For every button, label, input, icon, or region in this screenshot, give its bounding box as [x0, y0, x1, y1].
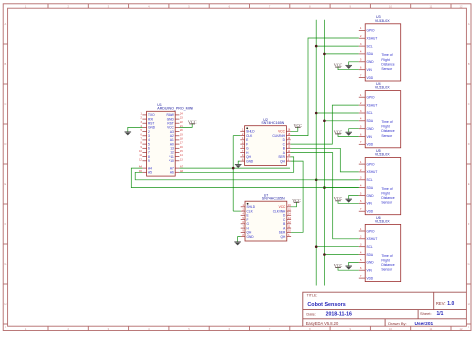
VCC flag U7	[292, 198, 301, 203]
svg-text:SDA: SDA	[367, 186, 374, 190]
svg-text:Time of: Time of	[381, 254, 392, 258]
wire U7.GND	[238, 237, 241, 242]
svg-text:VL53L0X: VL53L0X	[375, 19, 390, 23]
svg-text:1/1: 1/1	[437, 311, 444, 317]
svg-text:A5: A5	[148, 171, 152, 175]
svg-text:User201: User201	[415, 321, 434, 327]
svg-text:Sensor: Sensor	[381, 134, 393, 138]
VCC flag U1	[188, 119, 197, 124]
svg-text:VDD: VDD	[367, 143, 374, 147]
VCC flag module	[334, 63, 343, 68]
wire module GND	[349, 262, 359, 266]
wire SCL stub	[316, 112, 359, 114]
svg-text:Sensor: Sensor	[381, 201, 393, 205]
svg-text:*10: *10	[169, 159, 174, 163]
wire module VIN	[338, 201, 359, 204]
svg-text:Distance: Distance	[381, 263, 394, 267]
VCC flag U2	[293, 123, 302, 128]
svg-text:GND: GND	[367, 261, 375, 265]
svg-text:9: 9	[148, 159, 150, 163]
wire U2.CLK stub	[233, 135, 240, 137]
svg-text:C: C	[4, 102, 6, 106]
svg-text:VDD: VDD	[367, 276, 374, 280]
MCU U1 ARDUINO_PRO_MINI	[139, 103, 193, 176]
wire U1.A6 to U2.SER	[179, 157, 293, 172]
junction SDA	[323, 120, 326, 123]
wire module GND	[349, 129, 359, 133]
junction SCL	[315, 45, 318, 48]
wire U7.VCC	[291, 202, 297, 207]
svg-text:ARDUINO_PRO_MINI: ARDUINO_PRO_MINI	[157, 106, 193, 110]
svg-text:GPIO: GPIO	[367, 96, 375, 100]
svg-text:QH: QH	[280, 159, 285, 163]
svg-text:GND: GND	[367, 194, 375, 198]
svg-text:GND: GND	[367, 127, 375, 131]
svg-text:XSHUT: XSHUT	[367, 37, 378, 41]
svg-text:G: G	[4, 262, 6, 266]
wire U1.VCC	[179, 124, 192, 128]
svg-text:Flight: Flight	[381, 192, 389, 196]
wire module VIN	[338, 134, 359, 137]
junction SDA	[323, 253, 326, 256]
ground flag module	[345, 266, 352, 270]
svg-text:SDA: SDA	[367, 52, 374, 56]
wire module VIN	[338, 268, 359, 271]
wire module GND	[349, 62, 359, 66]
wire U1.GND	[128, 127, 143, 131]
wire SCL bus vertical	[315, 20, 317, 286]
sensor U3 VL53L0X	[359, 15, 401, 81]
svg-text:SCL: SCL	[367, 44, 373, 48]
svg-text:VL53L0X: VL53L0X	[375, 153, 390, 157]
svg-text:VIN: VIN	[367, 68, 373, 72]
junction SDA	[323, 186, 326, 189]
shift register U7 SN74HC165N	[241, 194, 292, 242]
svg-text:H: H	[4, 302, 6, 306]
svg-text:2018-11-16: 2018-11-16	[326, 311, 352, 317]
svg-text:Flight: Flight	[381, 258, 389, 262]
svg-text:G: G	[468, 262, 470, 266]
svg-text:EasyEDA V5.8.20: EasyEDA V5.8.20	[306, 321, 339, 326]
shift register U2 SN74HC165N	[240, 118, 291, 166]
wire U1.A5 SCL run	[135, 172, 359, 180]
junction SCL	[315, 245, 318, 248]
svg-text:VL53L0X: VL53L0X	[375, 86, 390, 90]
wire U2.GND	[238, 161, 240, 164]
wire U2.CLKINH to U3.XSHUT	[291, 38, 359, 136]
svg-text:XSHUT: XSHUT	[367, 237, 378, 241]
svg-text:D: D	[468, 142, 470, 146]
VCC flag module	[334, 196, 343, 201]
svg-text:Flight: Flight	[381, 125, 389, 129]
sensor U6 VL53L0X	[359, 216, 401, 282]
wire SDA stub	[324, 187, 358, 189]
wire SCL stub	[316, 179, 359, 181]
svg-text:A6: A6	[170, 171, 174, 175]
svg-text:D: D	[4, 142, 6, 146]
svg-text:B: B	[5, 62, 7, 66]
wire U2.QH to U7.SER	[291, 161, 304, 232]
svg-text:Flight: Flight	[381, 58, 389, 62]
ground flag U7	[234, 242, 241, 246]
wire CLK vertical	[232, 136, 234, 212]
svg-text:GND: GND	[247, 235, 255, 239]
svg-text:Sensor: Sensor	[381, 67, 393, 71]
svg-text:Time of: Time of	[381, 120, 392, 124]
wire U1.A7 row	[179, 167, 290, 169]
svg-text:1.0: 1.0	[447, 301, 454, 307]
svg-text:Cobot Sensors: Cobot Sensors	[307, 302, 345, 308]
ground flag module	[345, 132, 352, 136]
svg-text:SCL: SCL	[367, 111, 373, 115]
svg-text:SDA: SDA	[367, 253, 374, 257]
svg-text:VDD: VDD	[367, 76, 374, 80]
ground flag U2	[235, 165, 242, 169]
svg-text:Distance: Distance	[381, 129, 394, 133]
wire U2.C to U4.XSHUT	[291, 105, 359, 144]
svg-text:B: B	[468, 62, 470, 66]
svg-text:A: A	[468, 22, 470, 26]
svg-text:TITLE:: TITLE:	[307, 294, 318, 298]
svg-text:REV:: REV:	[436, 301, 446, 306]
svg-text:GPIO: GPIO	[367, 229, 375, 233]
wire module VIN	[338, 67, 359, 70]
svg-text:SN74HC165N: SN74HC165N	[261, 121, 284, 125]
svg-text:XSHUT: XSHUT	[367, 170, 378, 174]
svg-text:VIN: VIN	[367, 202, 373, 206]
wire U7.CLK stub	[233, 210, 241, 212]
svg-text:VIN: VIN	[367, 135, 373, 139]
svg-text:Time of: Time of	[381, 53, 392, 57]
svg-text:SCL: SCL	[367, 178, 373, 182]
wire SDA stub	[324, 120, 358, 122]
wire module GND	[349, 196, 359, 200]
svg-text:QH: QH	[281, 235, 286, 239]
svg-text:GPIO: GPIO	[367, 162, 375, 166]
svg-text:C: C	[468, 102, 470, 106]
junction SDA	[323, 53, 326, 56]
svg-text:SCL: SCL	[367, 245, 373, 249]
svg-text:A: A	[5, 22, 7, 26]
wire SDA stub	[324, 53, 358, 55]
wire U2.A to U6.XSHUT	[291, 153, 359, 239]
wire U1.A4 SDA run	[131, 168, 358, 188]
wire SCL stub	[316, 246, 359, 248]
svg-text:VL53L0X: VL53L0X	[375, 219, 390, 223]
wire SCL stub	[316, 45, 359, 47]
junction SCL	[315, 179, 318, 182]
svg-text:Sheet:: Sheet:	[420, 311, 432, 316]
svg-text:Distance: Distance	[381, 62, 394, 66]
ground flag U1	[125, 132, 132, 136]
junction SCL	[315, 112, 318, 115]
svg-text:GPIO: GPIO	[367, 29, 375, 33]
svg-text:SN74HC165N: SN74HC165N	[262, 196, 285, 200]
svg-text:VIN: VIN	[367, 269, 373, 273]
wire SDA bus vertical	[323, 20, 325, 286]
svg-text:GND: GND	[367, 60, 375, 64]
junction CLK/A7	[232, 167, 235, 170]
wire U2.B to U5.XSHUT	[291, 148, 359, 172]
svg-text:E: E	[5, 182, 7, 186]
title block	[303, 292, 467, 326]
wire SDA stub	[324, 254, 358, 256]
svg-text:Distance: Distance	[381, 196, 394, 200]
svg-text:Date:: Date:	[306, 311, 316, 316]
svg-text:GND: GND	[246, 159, 254, 163]
svg-text:SDA: SDA	[367, 119, 374, 123]
ground flag module	[345, 199, 352, 203]
svg-text:Time of: Time of	[381, 187, 392, 191]
VCC flag module	[334, 263, 343, 268]
ground flag module	[345, 65, 352, 69]
svg-text:E: E	[468, 182, 470, 186]
sensor U4 VL53L0X	[359, 82, 401, 148]
wire U2.VCC	[291, 127, 298, 131]
svg-text:VDD: VDD	[367, 210, 374, 214]
sensor U5 VL53L0X	[359, 149, 401, 215]
VCC flag module	[334, 129, 343, 134]
svg-text:Sensor: Sensor	[381, 268, 393, 272]
svg-text:Drawn By:: Drawn By:	[388, 321, 406, 326]
svg-text:H: H	[468, 302, 470, 306]
svg-text:XSHUT: XSHUT	[367, 103, 378, 107]
